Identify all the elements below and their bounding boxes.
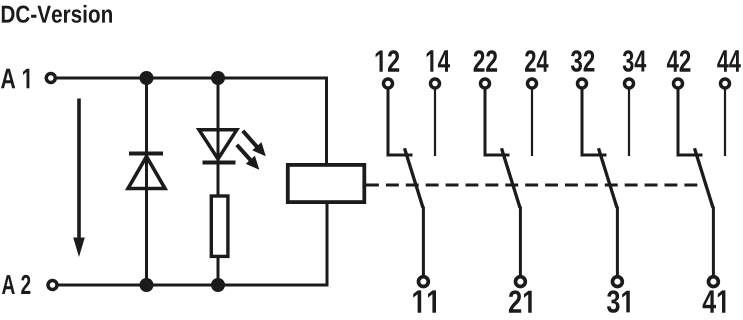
label A2: [2, 275, 30, 294]
contact 3: wire from 32: [582, 89, 607, 155]
wire bottom rail coil to A2: [57, 201, 327, 285]
contact 4: wire from 42: [678, 89, 703, 155]
junction bottom LED node: [211, 278, 225, 292]
wire top rail A1 to coil: [56, 78, 327, 167]
contact 3: terminal 32: [578, 79, 587, 88]
pin label 34: [623, 50, 646, 72]
terminal A2: [48, 281, 57, 290]
label A1: [1, 69, 29, 89]
contact 4: wire from 44: [724, 89, 726, 156]
LED: [199, 130, 237, 163]
contact 2: terminal 24: [528, 79, 537, 88]
junction top diode node: [140, 71, 154, 85]
title DC-Version: [2, 5, 112, 23]
pin label 32: [571, 50, 595, 72]
contact 3: terminal 31: [613, 277, 623, 287]
pin label 44: [717, 50, 741, 72]
pin label 11: [413, 290, 436, 312]
wire LED branch: [217, 78, 220, 285]
contact 2: terminal 21: [516, 277, 526, 287]
pin label 22: [474, 50, 498, 72]
pin label 42: [667, 50, 691, 72]
contact 4: terminal 42: [674, 79, 683, 88]
contact 1: wire to 11: [422, 207, 425, 278]
pin label 41: [703, 290, 726, 312]
LED light arrow 2: [237, 145, 259, 170]
contact 4: wire to 41: [712, 207, 715, 278]
pin label 31: [607, 290, 630, 312]
diode V1: [128, 154, 165, 189]
contact 1: wire from 12: [388, 89, 413, 155]
wire diode branch: [145, 78, 148, 285]
contact 4: terminal 41: [709, 277, 719, 287]
contact 1: terminal 11: [419, 277, 429, 287]
contact 1: movable blade: [405, 148, 424, 208]
contact 3: movable blade: [599, 148, 618, 208]
LED light arrow 1: [243, 131, 266, 157]
contact 4: movable blade: [695, 148, 714, 208]
contact 2: wire to 21: [519, 207, 522, 278]
polarity arrow: [73, 99, 85, 258]
pin label 24: [525, 50, 549, 72]
contact 3: terminal 34: [625, 79, 634, 88]
pin label 21: [509, 290, 532, 312]
pin label 12: [376, 50, 400, 72]
contact 3: wire from 34: [628, 89, 630, 156]
contact 4: terminal 44: [721, 79, 730, 88]
contact 2: wire from 22: [485, 89, 510, 155]
junction top LED node: [211, 71, 225, 85]
relay coil K1: [288, 165, 365, 202]
contact 1: terminal 12: [384, 79, 393, 88]
contact 2: movable blade: [502, 148, 521, 208]
pin label 14: [427, 50, 450, 72]
contact 1: wire from 14: [434, 89, 436, 156]
contact 1: terminal 14: [431, 79, 440, 88]
terminal A1: [46, 74, 55, 83]
junction bottom diode node: [140, 278, 154, 292]
resistor R1: [211, 196, 228, 256]
contact 3: wire to 31: [616, 207, 619, 278]
contact 2: wire from 24: [531, 89, 533, 156]
mechanical link dashed line: [366, 184, 698, 187]
contact 2: terminal 22: [481, 79, 490, 88]
